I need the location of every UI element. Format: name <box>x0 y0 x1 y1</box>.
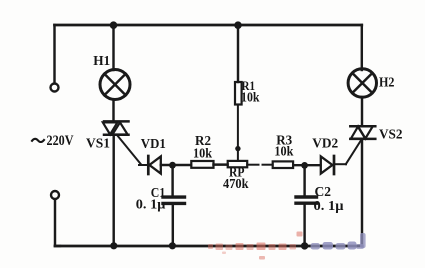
wire VS1 to bottom bus <box>112 135 114 246</box>
wire lamp H1 to VS1 <box>112 100 114 122</box>
svg-text:VS1: VS1 <box>86 137 110 152</box>
node junction top center <box>234 21 242 29</box>
svg-text:0. 1μ: 0. 1μ <box>314 198 344 213</box>
svg-text:10k: 10k <box>193 147 212 162</box>
wire C2 to bottom bus <box>303 205 305 246</box>
potentiometer RP body <box>228 161 248 167</box>
wire lamp H2 to VS2 <box>361 97 363 126</box>
svg-text:H1: H1 <box>93 54 110 69</box>
svg-text:10k: 10k <box>241 91 260 106</box>
RP wiper arrow dot <box>235 146 240 151</box>
svg-text:H2: H2 <box>379 75 395 90</box>
terminal upper (AC input) <box>51 84 59 92</box>
svg-text:0. 1μ: 0. 1μ <box>136 196 166 211</box>
diode VD2 <box>321 156 334 174</box>
lamp H2 <box>348 69 376 97</box>
wire bottom bus <box>55 245 362 248</box>
capacitor C1 <box>163 197 185 203</box>
wire VS2 to bottom bus <box>361 139 363 246</box>
wire left input upper <box>53 25 55 83</box>
wire top bus to lamp H2 <box>361 25 363 70</box>
wire R2 to RP <box>214 163 228 165</box>
node junction bottom VS1 <box>110 242 117 249</box>
wire top bus <box>55 24 362 27</box>
node junction top H1 <box>110 21 118 29</box>
resistor R3 <box>273 161 293 168</box>
wire node to C1 <box>171 165 173 195</box>
wire VD2 to gate diagonal <box>334 163 346 165</box>
node junction bottom C1 <box>169 242 176 249</box>
terminal lower (AC input) <box>51 191 59 199</box>
wire R3 to VD2 <box>293 164 320 166</box>
node junction R3/C2/VD2 <box>301 162 308 169</box>
diode VD1 <box>148 156 161 174</box>
svg-text:10k: 10k <box>274 145 293 160</box>
wire RP to R3 (broken scan dashes) <box>247 164 258 166</box>
lamp H1 <box>100 70 130 100</box>
label ~220V <box>32 133 74 149</box>
resistor R1 <box>235 82 242 105</box>
watermark blue text blobs <box>311 233 366 250</box>
svg-text:470k: 470k <box>223 177 249 192</box>
capacitor C2 <box>296 197 317 203</box>
wire gate to diode VD1 <box>139 164 148 166</box>
svg-text:VD1: VD1 <box>141 137 166 152</box>
triac VS2 <box>350 126 375 139</box>
wire top bus to lamp H1 <box>112 25 114 70</box>
watermark red text blobs <box>208 232 303 260</box>
svg-text:VD2: VD2 <box>312 137 338 152</box>
wire node to C2 <box>303 165 305 195</box>
wire top bus to R1 <box>237 25 239 82</box>
resistor R2 <box>191 161 213 168</box>
wire VD1 to R2 <box>161 164 191 166</box>
wire C1 to bottom bus <box>172 205 174 246</box>
node junction bottom C2 <box>301 242 308 249</box>
svg-text:220V: 220V <box>47 133 74 149</box>
triac VS1 <box>103 121 129 134</box>
wire R1 to RP wiper <box>237 105 239 161</box>
node junction VD1/C1/R2 <box>169 162 176 169</box>
wire VS1 gate diagonal <box>118 136 141 165</box>
wire left input lower <box>55 200 60 247</box>
svg-text:C2: C2 <box>315 184 332 199</box>
wire VS2 gate diagonal <box>346 141 361 165</box>
svg-text:VS2: VS2 <box>379 127 403 142</box>
